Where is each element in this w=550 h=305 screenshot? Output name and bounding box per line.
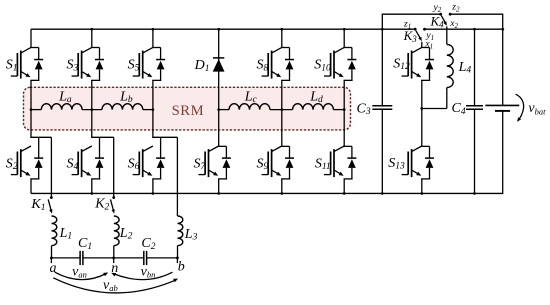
junctions top bus	[90, 28, 93, 31]
svg-text:S6: S6	[128, 156, 140, 172]
inductor L1	[52, 216, 57, 246]
node y2 contact	[439, 13, 442, 16]
svg-text:C3: C3	[357, 101, 371, 117]
transistor S4	[91, 136, 114, 138]
transistor S5	[152, 47, 160, 49]
svg-text:L3: L3	[184, 227, 198, 243]
svg-text:vbat: vbat	[528, 101, 546, 116]
svg-text:a: a	[50, 261, 57, 276]
wire branch 1 collector tap down	[50, 137, 52, 197]
arrow vbat	[516, 94, 524, 120]
transistor S3	[91, 47, 99, 49]
node z2 contact	[449, 13, 452, 16]
wire leg2 emitter to winding	[91, 80, 93, 109]
wire top link right segment (z2 side)	[450, 13, 503, 15]
wire leg3 winding to lower collector	[152, 110, 154, 138]
transistor S11	[344, 145, 352, 147]
wire leg1 top bus to collector	[30, 29, 32, 47]
switch K3	[416, 31, 421, 40]
wire leg5 winding to lower collector	[281, 110, 283, 147]
wire leg5 emitter to winding	[281, 80, 283, 109]
switch K1	[48, 199, 51, 212]
wire battery bottom	[502, 111, 504, 194]
wire leg2 lower emitter to bottom bus	[91, 179, 93, 194]
wire top link corner drop	[381, 14, 383, 30]
arrow vbn	[113, 272, 172, 279]
svg-text:D1: D1	[194, 58, 210, 74]
svg-text:S8: S8	[257, 58, 269, 74]
node L4 junction	[420, 107, 423, 110]
wire leg1 emitter to winding	[30, 80, 32, 109]
svg-text:S4: S4	[67, 156, 79, 172]
svg-text:S9: S9	[257, 156, 269, 172]
arrow van	[55, 272, 107, 279]
svg-text:L4: L4	[458, 60, 472, 76]
wire battery top	[502, 14, 504, 106]
inductor Ld	[293, 104, 334, 110]
switch K2	[111, 199, 114, 212]
transistor S13	[421, 145, 429, 147]
diode D1	[213, 57, 224, 59]
svg-text:b: b	[178, 259, 185, 274]
wire L3 to node b	[177, 246, 179, 258]
wire S13 emitter to bottom bus	[421, 179, 423, 194]
capacitor C2	[143, 251, 145, 265]
svg-text:vbn: vbn	[141, 264, 156, 279]
battery vbat	[485, 104, 519, 106]
transistor S7	[218, 145, 226, 147]
node b	[176, 257, 179, 260]
svg-text:C2: C2	[141, 236, 155, 252]
wire x2 to L4	[446, 26, 448, 44]
svg-text:x2: x2	[449, 18, 458, 30]
wire top DC bus	[31, 28, 415, 30]
wire leg5 top bus to collector	[281, 29, 283, 47]
svg-text:S13: S13	[388, 156, 405, 172]
wire C3 bottom	[381, 109, 383, 193]
svg-text:L2: L2	[119, 226, 133, 242]
node y1 contact	[423, 28, 426, 31]
wire C3 top	[381, 29, 383, 106]
wire phase winding left segment	[31, 109, 41, 111]
inductor Lc	[229, 104, 270, 110]
switch K4	[441, 16, 446, 24]
transistor S1	[30, 47, 38, 49]
transistor S6	[152, 136, 177, 138]
wire node a to C1	[51, 257, 80, 259]
inductor L4	[447, 44, 453, 87]
SRM machine dashed enclosure	[24, 87, 351, 130]
wire phase winding Ld to leg6	[333, 109, 344, 111]
wire branch 2 collector tap down	[113, 137, 115, 197]
transistor S8	[281, 47, 289, 49]
svg-text:L1: L1	[59, 226, 73, 242]
svg-text:S1: S1	[6, 58, 18, 74]
node K2 contact	[112, 196, 115, 199]
wire L4 to S12 leg	[422, 108, 447, 110]
wire leg2 top bus to collector	[91, 29, 93, 47]
inductor L2	[114, 216, 119, 246]
wire leg2 winding to lower collector	[91, 110, 93, 138]
wire S12 emitter to S13 collector	[421, 80, 423, 146]
node K1 contact	[50, 196, 53, 199]
inductor L3	[178, 216, 183, 246]
wire leg5 lower emitter to bottom bus	[281, 179, 283, 194]
capacitor C3	[372, 105, 392, 107]
svg-text:C4: C4	[452, 101, 466, 117]
wire branch 3 collector tap down	[176, 137, 178, 216]
wire phase winding between La and Lb	[82, 109, 102, 111]
wire leg4 lower emitter to bottom bus	[218, 179, 220, 194]
svg-text:van: van	[72, 264, 87, 279]
wire leg1 winding to lower collector	[30, 110, 32, 138]
svg-text:S10: S10	[314, 58, 331, 74]
wire L2 to node	[113, 246, 115, 258]
svg-text:S3: S3	[67, 58, 79, 74]
svg-text:K2: K2	[94, 197, 109, 213]
wire leg6 lower emitter to bottom bus	[343, 179, 345, 194]
svg-text:SRM: SRM	[172, 103, 205, 119]
svg-text:S5: S5	[128, 58, 140, 74]
wire L4 bottom drop	[446, 88, 448, 109]
node a	[50, 257, 53, 260]
wire battery-side rail y1 segment	[425, 28, 503, 30]
svg-text:vab: vab	[103, 278, 118, 293]
node z1 contact	[414, 28, 417, 31]
wire leg3 top bus to collector	[152, 29, 154, 47]
wire x1 to S12 collector	[421, 42, 423, 48]
capacitor C1	[79, 251, 81, 265]
transistor S12	[421, 47, 429, 49]
wire C4 bottom	[474, 109, 476, 193]
svg-text:S2: S2	[6, 156, 18, 172]
wire L1 to node	[51, 246, 53, 258]
transistor S9	[281, 145, 289, 147]
wire leg3 emitter to winding	[152, 80, 154, 109]
wire leg4 winding to lower collector	[218, 110, 220, 147]
wire C1 to C2	[83, 257, 144, 259]
wire top link left segment (y2 side)	[382, 13, 440, 15]
inductor La	[41, 104, 82, 110]
wire phase winding leg4 to Lc	[219, 109, 229, 111]
wire C2 to node b	[147, 257, 178, 259]
wire bottom DC bus	[31, 192, 503, 194]
transistor S10	[344, 47, 352, 49]
wire leg4 top bus to winding	[218, 29, 220, 109]
wire phase winding Lb to leg3	[143, 109, 153, 111]
transistor S2	[30, 136, 51, 138]
svg-text:K1: K1	[30, 197, 45, 213]
svg-text:C1: C1	[78, 236, 92, 252]
junctions bottom bus	[90, 192, 93, 195]
capacitor C4	[466, 105, 483, 107]
svg-text:S11: S11	[315, 156, 331, 172]
wire leg1 lower emitter to bottom bus	[30, 179, 32, 194]
junctions winding wire	[30, 108, 33, 111]
wire leg6 emitter to winding	[343, 80, 345, 109]
wire leg6 top bus to collector	[343, 29, 345, 47]
wire leg6 winding to lower collector	[343, 110, 345, 147]
wire leg3 lower emitter to bottom bus	[152, 179, 154, 194]
wire C4 top	[474, 29, 476, 106]
wire phase winding between Lc and Ld	[270, 109, 293, 111]
arrow vab	[53, 278, 176, 293]
svg-text:z2: z2	[451, 2, 460, 14]
inductor Lb	[102, 104, 143, 110]
svg-text:y2: y2	[433, 2, 442, 14]
node n	[112, 257, 115, 260]
